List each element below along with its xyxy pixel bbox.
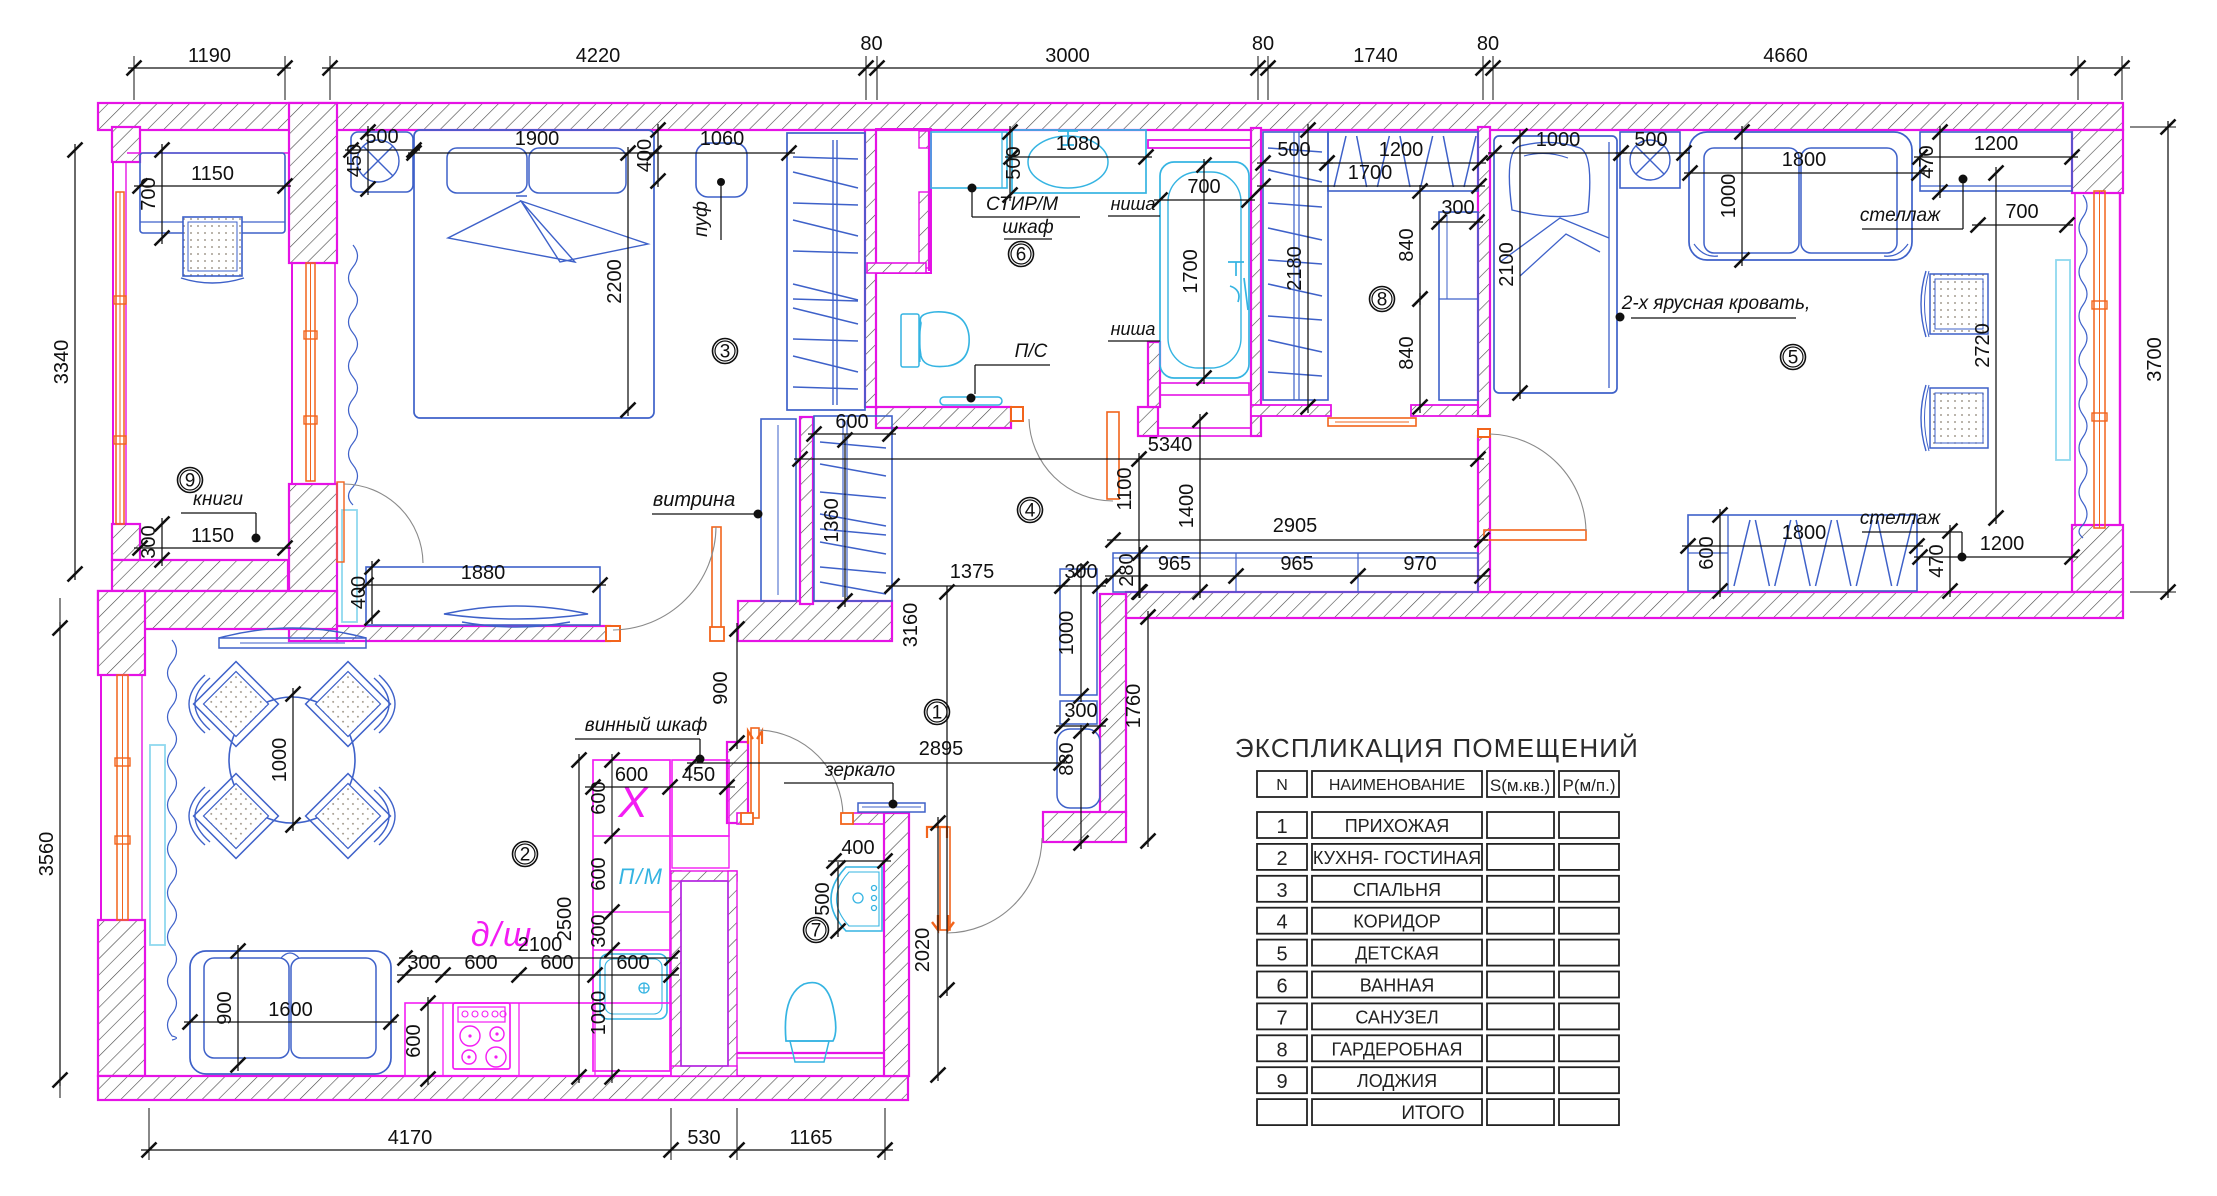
svg-text:P(м/п.): P(м/п.)	[1562, 776, 1615, 795]
wall: wardrobe8/room5 wall upper	[1478, 127, 1490, 416]
explication table row 1	[1257, 812, 1307, 838]
door jamb: bathroom7 right	[841, 813, 853, 824]
dining chair SW	[194, 774, 279, 859]
svg-text:2100: 2100	[1496, 242, 1518, 287]
window: balcony door glazing bedroom	[306, 263, 315, 481]
dim 450 nightstand	[367, 126, 369, 195]
svg-text:500: 500	[812, 882, 834, 915]
dim 280 cabinet depth	[1139, 547, 1141, 598]
svg-text:700: 700	[2005, 201, 2038, 223]
svg-text:600: 600	[588, 781, 610, 814]
svg-text:500: 500	[1634, 129, 1667, 151]
svg-text:стеллаж: стеллаж	[1860, 205, 1941, 226]
svg-text:600: 600	[616, 952, 649, 974]
cabinet row corridor	[1113, 553, 1478, 592]
svg-text:3340: 3340	[51, 340, 73, 385]
pillow bunk bed	[1509, 142, 1589, 216]
svg-text:1900: 1900	[515, 128, 560, 150]
radiator bedroom	[342, 510, 357, 622]
vitrina display cabinet	[761, 419, 796, 601]
wardrobe bedroom	[787, 133, 865, 410]
svg-text:1200: 1200	[1379, 139, 1424, 161]
svg-text:1000: 1000	[1056, 611, 1078, 656]
door slider: wardrobe8 pocket door	[1328, 418, 1416, 426]
dim 1700 bathtub length	[1203, 159, 1205, 384]
svg-text:1760: 1760	[1123, 684, 1145, 729]
wall: bottom band of upper strip	[1126, 592, 2123, 618]
svg-text:ЛОДЖИЯ: ЛОДЖИЯ	[1357, 1071, 1437, 1091]
room number circle 4	[1018, 498, 1043, 523]
closet8 top hanger strokes	[1334, 136, 1476, 187]
wall: duct shaft inner border	[681, 881, 728, 1066]
door leaf: bathroom6 door	[1107, 412, 1119, 499]
faucet dots bathroom7	[872, 886, 877, 891]
svg-text:S(м.кв.): S(м.кв.)	[1490, 776, 1550, 795]
svg-text:9: 9	[1276, 1071, 1287, 1093]
door swing: bathroom6 door	[1029, 419, 1113, 501]
svg-text:500: 500	[1277, 139, 1310, 161]
svg-text:1360: 1360	[821, 498, 843, 543]
svg-text:600: 600	[540, 952, 573, 974]
svg-text:2: 2	[520, 845, 531, 866]
svg-text:НАИМЕНОВАНИЕ: НАИМЕНОВАНИЕ	[1329, 777, 1465, 794]
svg-text:1740: 1740	[1353, 45, 1398, 67]
wall: duct niche next to bedroom - outline	[876, 129, 931, 273]
dining chair SE	[306, 774, 391, 859]
dim chain bottom 4170/530/1165	[141, 1149, 893, 1151]
bench loggia	[140, 153, 285, 233]
wall: duct shaft right band	[728, 871, 737, 1076]
svg-text:ДЕТСКАЯ: ДЕТСКАЯ	[1355, 944, 1439, 964]
svg-text:300: 300	[138, 525, 160, 558]
sofa room5 cushion left	[1704, 148, 1799, 253]
wall: bedroom right wall	[865, 130, 876, 407]
svg-text:1000: 1000	[269, 738, 291, 783]
door leaf: entrance door	[940, 827, 950, 930]
label stir/m shkaf with leader	[968, 184, 977, 193]
closet by corridor (600x1360)	[814, 416, 892, 601]
dim 1080 sink counter	[1005, 156, 1152, 158]
dim 470 shelf top	[1939, 126, 1941, 198]
sofa living cushion left	[204, 958, 289, 1058]
bed double bedroom	[414, 130, 654, 418]
dim 600 hall closet	[808, 433, 896, 435]
dim 500 nightstand5	[1615, 152, 1690, 154]
door leaf: bedroom door	[712, 527, 721, 631]
stove burners	[460, 1026, 480, 1046]
svg-text:80: 80	[1252, 33, 1274, 55]
curtain room5 window squiggle	[2079, 195, 2087, 538]
svg-text:5340: 5340	[1148, 434, 1193, 456]
dim 1100 corridor	[1138, 453, 1140, 598]
dim vertical chain 600/600/300/1000 column	[611, 754, 613, 1083]
door arrow: entrance door chevrons	[932, 915, 954, 930]
svg-text:450: 450	[344, 144, 366, 177]
svg-text:5: 5	[1276, 944, 1287, 966]
door swing: room5 door	[1490, 434, 1586, 531]
svg-text:N: N	[1276, 777, 1288, 794]
wall: bathroom6/wardrobe wall	[1251, 128, 1261, 436]
wall: left exterior upper (right of loggia)	[289, 103, 337, 263]
svg-text:3000: 3000	[1045, 45, 1090, 67]
tv set lens	[444, 606, 588, 619]
pillow bed left	[447, 148, 527, 193]
svg-text:840: 840	[1396, 336, 1418, 369]
dining table round	[229, 697, 355, 823]
svg-text:ниша: ниша	[1111, 194, 1156, 214]
dim 600 counter depth	[427, 997, 429, 1085]
cushion loggia dotted	[183, 217, 242, 276]
dim 400 tv console	[371, 561, 373, 624]
bunk bed room5	[1494, 136, 1617, 393]
svg-text:ЭКСПЛИКАЦИЯ ПОМЕЩЕНИЙ: ЭКСПЛИКАЦИЯ ПОМЕЩЕНИЙ	[1235, 733, 1639, 763]
pillow bed right	[529, 148, 626, 193]
door swing: kitchen door	[759, 730, 843, 815]
window: children room right window	[2094, 191, 2105, 528]
sink counter bathroom6	[1012, 130, 1146, 193]
dim 300 hall small	[1056, 725, 1106, 727]
armchair room5 upper	[1930, 274, 1988, 334]
svg-text:840: 840	[1396, 228, 1418, 261]
dim chain 300/600/600/600 counter	[397, 974, 679, 976]
svg-text:470: 470	[1916, 145, 1938, 178]
svg-text:900: 900	[710, 671, 732, 704]
tv console living	[366, 567, 600, 625]
explication table row 2	[1257, 844, 1307, 870]
explication table row 3	[1257, 876, 1307, 902]
door swing: bedroom door	[613, 527, 716, 630]
dim 1060 pouf zone	[648, 152, 795, 154]
dim 840 lower	[1419, 293, 1421, 413]
svg-text:300: 300	[407, 952, 440, 974]
svg-text:1375: 1375	[950, 561, 995, 583]
wall: hallway right wall	[1100, 594, 1126, 816]
svg-text:1060: 1060	[700, 128, 745, 150]
svg-text:400: 400	[841, 837, 874, 859]
dim chain top 4220/80/3000/80/1740/80/4660	[322, 67, 2130, 69]
svg-text:4660: 4660	[1763, 45, 1808, 67]
dim 1400 corridor	[1199, 414, 1201, 598]
kitchen tall cabinet column	[593, 760, 670, 1071]
dim 3560 living height	[59, 622, 61, 1086]
svg-text:2500: 2500	[554, 897, 576, 942]
svg-text:ниша: ниша	[1111, 319, 1156, 339]
wall: chunk under hall closet	[738, 601, 892, 641]
wall: band below loggia / living top-left	[98, 591, 337, 629]
dim 1000 dining table	[292, 688, 294, 831]
wall: bottom exterior band	[98, 1076, 908, 1100]
svg-text:1700: 1700	[1180, 249, 1202, 294]
faucet bathroom6 sink	[1058, 131, 1078, 145]
svg-text:7: 7	[1276, 1007, 1287, 1029]
svg-text:600: 600	[403, 1024, 425, 1057]
towel rail bathroom6	[940, 397, 1002, 405]
dim 2500 column	[578, 754, 580, 1083]
toilet bathroom6	[901, 314, 919, 367]
svg-text:1080: 1080	[1056, 133, 1101, 155]
toilet bathroom7	[785, 983, 835, 1041]
svg-text:КУХНЯ- ГОСТИНАЯ: КУХНЯ- ГОСТИНАЯ	[1313, 848, 1481, 868]
bathtub bathroom6	[1160, 162, 1249, 378]
svg-text:ВАННАЯ: ВАННАЯ	[1360, 976, 1434, 996]
dim 1150 loggia bottom	[134, 547, 291, 549]
svg-text:3160: 3160	[900, 603, 922, 648]
svg-text:ИТОГО: ИТОГО	[1401, 1103, 1464, 1124]
radiator living	[150, 745, 165, 945]
svg-text:1800: 1800	[1782, 149, 1827, 171]
wall: right exterior below window	[2072, 525, 2123, 592]
window: living room left window	[117, 675, 128, 920]
svg-text:винный шкаф: винный шкаф	[585, 715, 708, 736]
dim 1190 top	[128, 67, 291, 69]
svg-text:900: 900	[214, 991, 236, 1024]
dim 1600 sofa living	[184, 1021, 397, 1023]
cell below wine cabinet	[672, 836, 729, 868]
door jamb: bathroom6 left	[1011, 407, 1023, 421]
dim 900 sofa living depth	[237, 945, 239, 1071]
dim 3700 right height	[2167, 121, 2169, 598]
svg-text:600: 600	[588, 857, 610, 890]
armchair room5 lower	[1930, 388, 1988, 448]
dim 1200 closet8 top	[1321, 162, 1486, 164]
svg-text:4170: 4170	[388, 1127, 433, 1149]
washbasin bathroom7	[831, 867, 882, 931]
shelf unit room5 bottom	[1688, 515, 1917, 591]
dim 300 closet8 right col	[1433, 221, 1483, 223]
wall: kitchen/hall wall chunk	[727, 742, 748, 823]
dim 1375 hallway	[886, 585, 1068, 587]
svg-text:1800: 1800	[1782, 522, 1827, 544]
wall: loggia top-left corner chunk	[112, 127, 140, 162]
wall: bath niche bottom band	[1158, 428, 1251, 436]
dim 1800 sofa5	[1684, 172, 1925, 174]
wall: duct niche hatched chunk top	[919, 131, 929, 148]
svg-text:8: 8	[1276, 1039, 1287, 1061]
svg-text:300: 300	[1441, 197, 1474, 219]
dim chain bottom: extension lines	[148, 1108, 150, 1160]
closet8 right column	[1439, 212, 1478, 400]
svg-text:книги: книги	[193, 489, 243, 510]
svg-text:965: 965	[1158, 553, 1191, 575]
wall: duct shaft bottom band	[671, 1066, 737, 1076]
svg-text:СПАЛЬНЯ: СПАЛЬНЯ	[1353, 880, 1441, 900]
svg-text:П/М: П/М	[619, 864, 664, 889]
door leaf: kitchen door	[751, 728, 759, 818]
wall: bathroom7 bottom inner line	[737, 1052, 884, 1054]
dim 470 shelf bottom right	[1949, 525, 1951, 597]
dim 600 shelf bottom	[1719, 509, 1721, 597]
wall: bathroom7 right wall	[884, 813, 909, 1076]
cushion loggia front arc	[181, 278, 244, 283]
dim 400 washbasin7	[828, 860, 891, 862]
svg-text:450: 450	[682, 764, 715, 786]
window: loggia left glazing	[116, 192, 124, 524]
dim 2905 cabinet row	[1107, 539, 1488, 541]
explication table header row	[1257, 771, 1307, 797]
wall: vitrina partition	[800, 417, 813, 604]
svg-text:1150: 1150	[191, 163, 234, 185]
shelf unit room5 top-right	[1920, 132, 2072, 191]
dining chair NW	[194, 662, 279, 747]
closet8 left hanger strokes	[1268, 148, 1322, 376]
dim 1880 tv console	[360, 584, 606, 586]
svg-text:2180: 2180	[1284, 246, 1306, 291]
room number circle 1	[925, 700, 950, 725]
svg-text:400: 400	[634, 139, 656, 172]
svg-text:3: 3	[720, 342, 731, 363]
svg-text:4: 4	[1276, 912, 1287, 934]
dim 500 washbasin7	[837, 862, 839, 937]
svg-text:САНУЗЕЛ: САНУЗЕЛ	[1355, 1007, 1438, 1027]
wall: bath niche front chunk	[1148, 342, 1160, 407]
door swing: balcony door	[344, 484, 423, 563]
mirror hallway	[858, 803, 925, 812]
svg-text:5: 5	[1788, 348, 1799, 369]
svg-text:2200: 2200	[604, 259, 626, 304]
bath faucet	[1228, 262, 1248, 310]
dim chain 965/965/970	[1105, 575, 1490, 577]
svg-text:4: 4	[1025, 501, 1036, 522]
curtain living window squiggle	[168, 640, 177, 1040]
svg-text:700: 700	[138, 177, 160, 210]
washing machine niche bathroom6	[931, 132, 1007, 188]
svg-text:280: 280	[1116, 553, 1138, 586]
room number circle 2	[513, 842, 538, 867]
svg-text:1000: 1000	[588, 991, 610, 1036]
wall: right exterior above window	[2072, 130, 2123, 193]
dim 500 washing machine	[1009, 126, 1011, 201]
wall: bathroom7 top wall right part	[853, 813, 884, 824]
curtain bedroom window squiggle	[349, 245, 358, 505]
svg-text:2: 2	[1276, 848, 1287, 870]
svg-text:ГАРДЕРОБНАЯ: ГАРДЕРОБНАЯ	[1332, 1039, 1463, 1059]
wall: living room left exterior below window	[98, 920, 145, 1076]
dim 1760 outside wall	[1147, 611, 1149, 847]
nightstand room5	[1620, 132, 1680, 188]
door hinge marks: kitchen door top	[748, 731, 762, 744]
svg-text:1100: 1100	[1114, 467, 1136, 510]
wardrobe bedroom hanger strokes	[793, 157, 858, 389]
dim 700 bathtub width	[1154, 199, 1255, 201]
wall: bathroom6 bottom wall	[876, 407, 1011, 428]
dim 2200 bed length	[627, 147, 629, 416]
lamp bedroom circled-X	[357, 140, 399, 182]
dim 1900 bed width	[408, 152, 660, 154]
svg-text:витрина: витрина	[653, 489, 735, 511]
dim 1150 loggia top	[134, 185, 291, 187]
hall cabinet tall	[1060, 569, 1097, 695]
svg-text:П/С: П/С	[1015, 341, 1048, 362]
svg-text:3560: 3560	[36, 832, 58, 877]
sofa room5 cushion right	[1801, 148, 1897, 253]
wall: right exterior outer line across window	[2119, 193, 2121, 525]
sink bowl bathroom6	[1028, 136, 1108, 188]
svg-text:530: 530	[687, 1127, 720, 1149]
room number circle 9	[178, 468, 203, 493]
svg-text:970: 970	[1403, 553, 1436, 575]
hall bench rounded	[1057, 729, 1100, 808]
svg-text:1000: 1000	[1718, 174, 1740, 219]
wall: bathroom6 left wall line	[928, 130, 930, 271]
wall: loggia bottom band	[112, 560, 288, 591]
dim 300 hall cabinet	[1056, 585, 1106, 587]
svg-text:80: 80	[1477, 33, 1499, 55]
svg-text:300: 300	[588, 914, 610, 947]
dim chain 600/450 column top	[585, 786, 735, 788]
dim 500 closet8 left	[1257, 162, 1333, 164]
svg-text:КОРИДОР: КОРИДОР	[1353, 912, 1440, 932]
svg-text:470: 470	[1926, 544, 1948, 577]
room number circle 8	[1370, 287, 1395, 312]
room number circle 7	[804, 918, 829, 943]
dim 3160 hallway	[946, 586, 948, 996]
dim 1200 bottom right	[1914, 556, 2078, 558]
wall: duct shaft top band	[671, 871, 737, 881]
door swing: entrance door	[947, 838, 1042, 933]
svg-text:4220: 4220	[576, 45, 621, 67]
dim 1360 hall closet	[844, 434, 846, 607]
svg-text:7: 7	[811, 921, 822, 942]
explication table row 10	[1257, 1099, 1307, 1125]
svg-text:шкаф: шкаф	[1002, 217, 1053, 238]
room number circle 5	[1781, 345, 1806, 370]
wall: wardrobe8 bottom wall right part	[1411, 405, 1478, 416]
svg-text:80: 80	[860, 33, 882, 55]
wall: niche bottom closure band	[867, 263, 926, 273]
dim 700 loggia bench	[161, 144, 163, 244]
svg-text:СТИР/М: СТИР/М	[986, 194, 1058, 215]
svg-text:1190: 1190	[188, 45, 231, 67]
door hinge jamb: bedroom door	[710, 627, 724, 641]
svg-text:1600: 1600	[268, 999, 313, 1021]
wall: duct shaft left band	[671, 871, 681, 1076]
svg-text:пуф: пуф	[691, 201, 712, 237]
nightstand bedroom	[351, 132, 413, 192]
dim 1700 closet8	[1257, 185, 1485, 187]
wall: wardrobe8 bottom wall left part	[1251, 405, 1331, 416]
explication table row 7	[1257, 1003, 1307, 1029]
wall: duct niche hatched chunk bottom	[919, 192, 929, 268]
radiator room5	[2056, 260, 2070, 460]
dim 2895 hallway	[687, 762, 1067, 764]
wall: living/bedroom divider	[337, 626, 610, 641]
explication table row 8	[1257, 1035, 1307, 1061]
room number circle 3	[713, 339, 738, 364]
door jamb: kitchen door bottom / bathroom7 left	[741, 813, 753, 824]
svg-text:300: 300	[1064, 700, 1097, 722]
dim 500 nightstand	[345, 149, 420, 151]
svg-text:2905: 2905	[1273, 515, 1318, 537]
svg-text:1400: 1400	[1176, 484, 1198, 529]
svg-text:1880: 1880	[461, 562, 506, 584]
dim 700 top right	[1972, 224, 2073, 226]
dim 1000 sofa5 depth	[1741, 126, 1743, 266]
svg-text:3: 3	[1276, 880, 1287, 902]
blanket fold bed	[448, 196, 648, 262]
dim 1000 hall cabinet	[1080, 563, 1082, 702]
sofa living cushion right	[291, 958, 376, 1058]
door jamb: living/bedroom opening	[606, 626, 620, 641]
wall: top exterior band	[98, 103, 2123, 130]
door leaf: balcony door bedroom	[337, 482, 344, 562]
svg-text:8: 8	[1377, 290, 1388, 311]
svg-text:2020: 2020	[912, 928, 934, 973]
wall: bath niche shelf under tub	[1160, 383, 1249, 395]
dim 5340 corridor	[794, 458, 1484, 460]
blanket bunk bed	[1500, 218, 1609, 276]
door leaf: room5 door	[1484, 530, 1586, 540]
svg-text:2895: 2895	[919, 738, 964, 760]
